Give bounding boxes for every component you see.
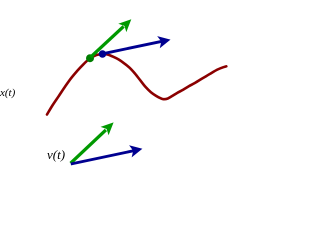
point dot P2 (blue, on curve) [99,50,107,58]
curve gamma (dark red trajectory) [47,54,226,115]
svg-text:x(t): x(t) [0,87,16,99]
point dot P1 (green, on curve) [86,54,94,62]
translated vector v2 (blue arrow, lower copy) [71,143,144,164]
tangent vector v2 at P2 (blue arrow) [103,34,172,54]
svg-text:v(t): v(t) [47,147,65,162]
translated vector v1 (green arrow, lower copy) [71,118,118,163]
tangent vector v1 at P1 (green arrow) [91,15,136,57]
